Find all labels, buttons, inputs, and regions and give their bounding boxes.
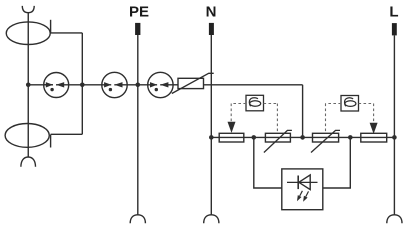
wire row segment	[127, 84, 148, 86]
svg-text:PE: PE	[129, 4, 149, 21]
socket contact bottom left	[21, 157, 36, 167]
electrode E1 (top isolating spark gap electrode)	[6, 22, 50, 45]
dashed link T1 to RV2	[264, 104, 278, 134]
socket contact PE bottom	[130, 215, 145, 224]
wire L vertical	[393, 35, 395, 215]
wire row segment	[173, 84, 178, 86]
wire tap E2	[51, 133, 83, 135]
gas discharge tube G2	[102, 72, 127, 97]
disconnector F2	[361, 133, 387, 142]
thermal monitor T2 box	[341, 96, 359, 112]
dashed link T1 to trigger arrow	[231, 104, 246, 122]
junction dot bus-a	[252, 135, 257, 140]
wire bus N to L	[211, 136, 394, 138]
dashed link T2 to RV3	[326, 104, 342, 134]
terminal blade L	[392, 23, 397, 35]
wire N vertical	[210, 35, 212, 215]
junction dot bus-N	[209, 135, 214, 140]
junction dot row-PE	[136, 83, 141, 88]
wire elbow down to bus	[302, 85, 304, 138]
junction dot bus-b	[300, 135, 305, 140]
wire row segment	[69, 84, 102, 86]
indicator box U1	[282, 169, 323, 210]
trigger arrow F1	[228, 122, 236, 133]
wire LED branch left	[254, 137, 282, 188]
trigger arrow F2	[370, 123, 378, 134]
thermal monitor T1 box	[246, 95, 264, 111]
socket contact L bottom	[387, 215, 402, 224]
terminal blade PE	[135, 23, 140, 35]
electrode E1 stub	[50, 20, 52, 33]
node N terminal label	[206, 4, 217, 21]
junction dot bus-c	[348, 135, 353, 140]
wire PE vertical	[137, 35, 139, 215]
dashed link T2 to trigger arrow	[359, 104, 374, 123]
electrode E2 (bottom isolating spark gap electrode)	[5, 123, 49, 147]
varistor RV3	[311, 130, 340, 152]
junction dot row-left	[26, 83, 31, 88]
wire row segment left	[28, 84, 53, 86]
wire vertical tap bus	[81, 33, 83, 134]
wire LED branch right	[323, 137, 351, 188]
node PE terminal label	[129, 4, 149, 21]
junction dot row-tap	[80, 83, 85, 88]
node L terminal label	[389, 4, 398, 21]
disconnector F1	[219, 133, 244, 142]
wire tap E1	[51, 32, 83, 34]
svg-text:L: L	[389, 4, 398, 21]
junction dot bus-L	[392, 135, 397, 140]
varistor RV2	[264, 130, 292, 152]
socket contact top left	[22, 6, 34, 13]
electrode E2 stub	[50, 135, 52, 148]
LED D1	[287, 175, 318, 202]
terminal blade N	[209, 23, 214, 35]
wire row segment to elbow	[204, 84, 303, 86]
gas discharge tube G3	[148, 72, 173, 97]
gas discharge tube G1	[44, 73, 69, 98]
varistor RV1	[172, 73, 214, 93]
wire left main vertical	[27, 13, 29, 157]
svg-text:N: N	[206, 4, 217, 21]
socket contact N bottom	[204, 215, 219, 224]
